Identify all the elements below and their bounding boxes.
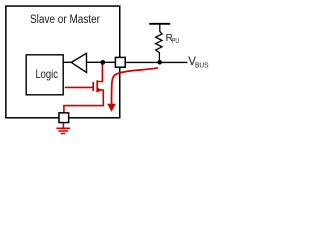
svg-text:Slave or Master: Slave or Master: [30, 14, 100, 26]
power supply bar: [149, 23, 170, 25]
wire: buffer output to logic: [63, 61, 71, 63]
input buffer: [71, 53, 86, 72]
node: drain junction: [100, 60, 105, 65]
node: resistor junction: [157, 60, 162, 65]
pin: bus pad: [115, 57, 125, 67]
wire: source return (red): [64, 90, 103, 113]
svg-text:Logic: Logic: [35, 67, 58, 81]
ground: [56, 123, 70, 134]
wire: VBUS rail: [125, 61, 187, 63]
svg-text:PU: PU: [172, 38, 179, 45]
transistor Q1 source arrow (red): [98, 88, 102, 93]
svg-text:BUS: BUS: [195, 60, 209, 69]
logic block: [26, 55, 63, 95]
wire: drain to node (red): [97, 62, 102, 81]
device box: Slave or Master: [6, 6, 120, 118]
resistor RPU: [156, 24, 162, 62]
transistor Q1 gate bar (red): [92, 82, 94, 91]
wire: pin to buffer input: [87, 61, 116, 63]
wire: gate drive (red): [65, 86, 93, 88]
pin: ground pad (bottom): [59, 113, 69, 123]
current flow arrow (red): [112, 68, 159, 104]
transistor Q1 channel bar (red): [96, 80, 98, 92]
